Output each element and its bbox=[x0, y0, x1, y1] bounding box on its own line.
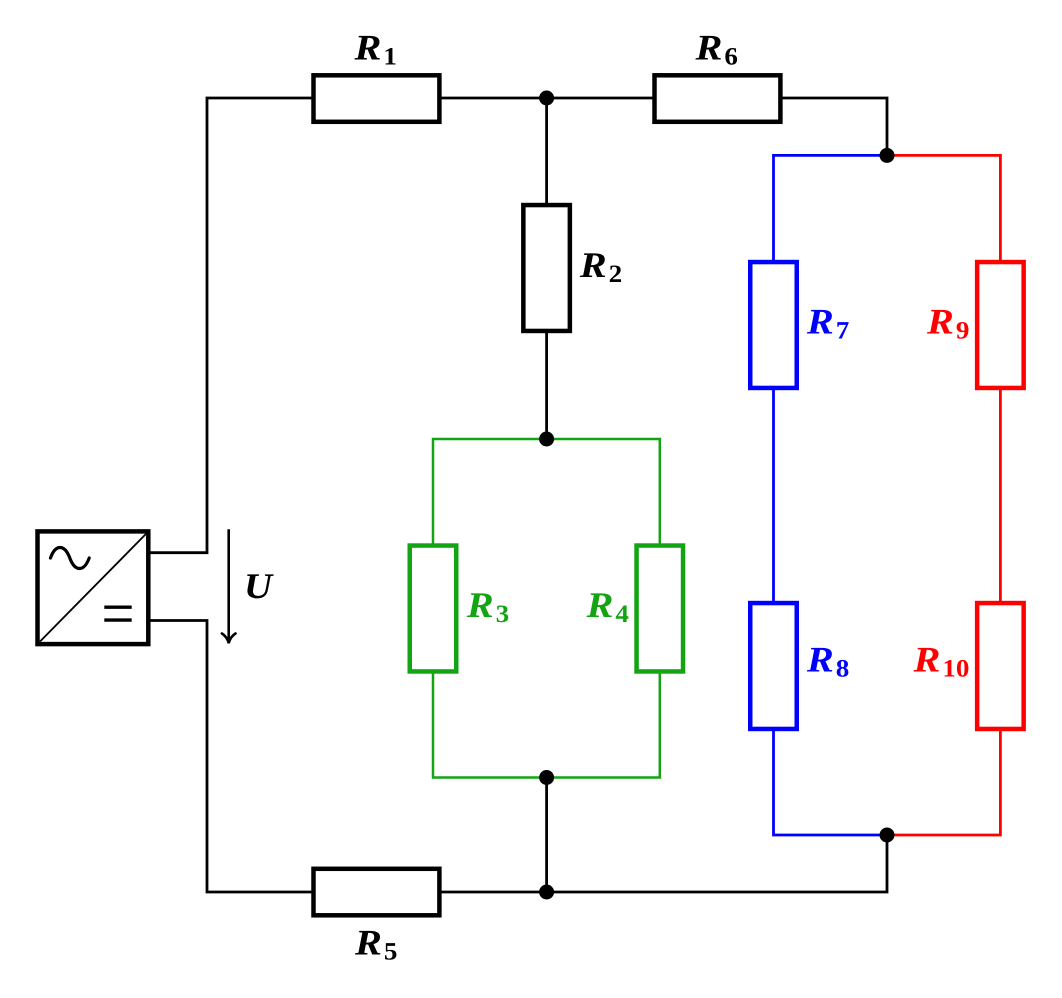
label R2 bbox=[580, 253, 621, 282]
source U1: diagonal divider bbox=[40, 534, 146, 642]
label R9 bbox=[927, 310, 968, 339]
voltage arrow U head bbox=[222, 634, 236, 644]
resistor R7 bbox=[750, 262, 797, 388]
label R4 bbox=[586, 593, 628, 622]
resistor R9 bbox=[977, 262, 1024, 388]
node A: junction R1/R6/R2 bbox=[539, 91, 554, 106]
resistor R5 bbox=[314, 869, 440, 916]
source U1: AC/DC converter box bbox=[38, 531, 149, 644]
wire: blue branch through R7 and R8 bbox=[774, 155, 888, 835]
resistor R1 bbox=[314, 75, 440, 122]
source U1: DC equals symbol bbox=[104, 607, 131, 620]
wire: green parallel loop for R3 and R4 bbox=[433, 439, 660, 778]
wire: node A down through R2 to node C bbox=[545, 98, 548, 439]
wire: source bottom terminal to left vertical down to bottom rail to riser at right bbox=[150, 621, 887, 893]
node B: junction top of blue/red branches bbox=[880, 148, 895, 163]
node E: junction bottom of blue/red branches bbox=[880, 828, 895, 843]
label R5 bbox=[355, 931, 396, 960]
voltage arrow U shaft bbox=[227, 529, 230, 641]
label R8 bbox=[807, 648, 849, 677]
label R1 bbox=[354, 36, 395, 65]
source U1: AC sine symbol bbox=[51, 548, 90, 569]
wire: node D down to node F on bottom rail bbox=[545, 778, 548, 893]
label R6 bbox=[695, 36, 737, 65]
resistor R8 bbox=[750, 603, 797, 729]
label U bbox=[247, 574, 274, 598]
wire: red branch through R9 and R10 bbox=[887, 155, 1000, 835]
node C: junction R2 to green loop bbox=[539, 432, 554, 447]
resistor R4 bbox=[637, 546, 684, 672]
label R10 bbox=[913, 648, 968, 677]
node F: junction on bottom rail bbox=[539, 885, 554, 900]
resistor R3 bbox=[410, 546, 457, 672]
label R7 bbox=[807, 310, 849, 339]
resistor R10 bbox=[977, 603, 1024, 729]
resistor R6 bbox=[655, 75, 781, 122]
resistor R2 bbox=[523, 205, 570, 331]
wire: source top terminal to left vertical to top rail to drop at right bbox=[150, 98, 887, 553]
label R3 bbox=[467, 593, 509, 622]
node D: junction green loop bottom bbox=[539, 770, 554, 785]
